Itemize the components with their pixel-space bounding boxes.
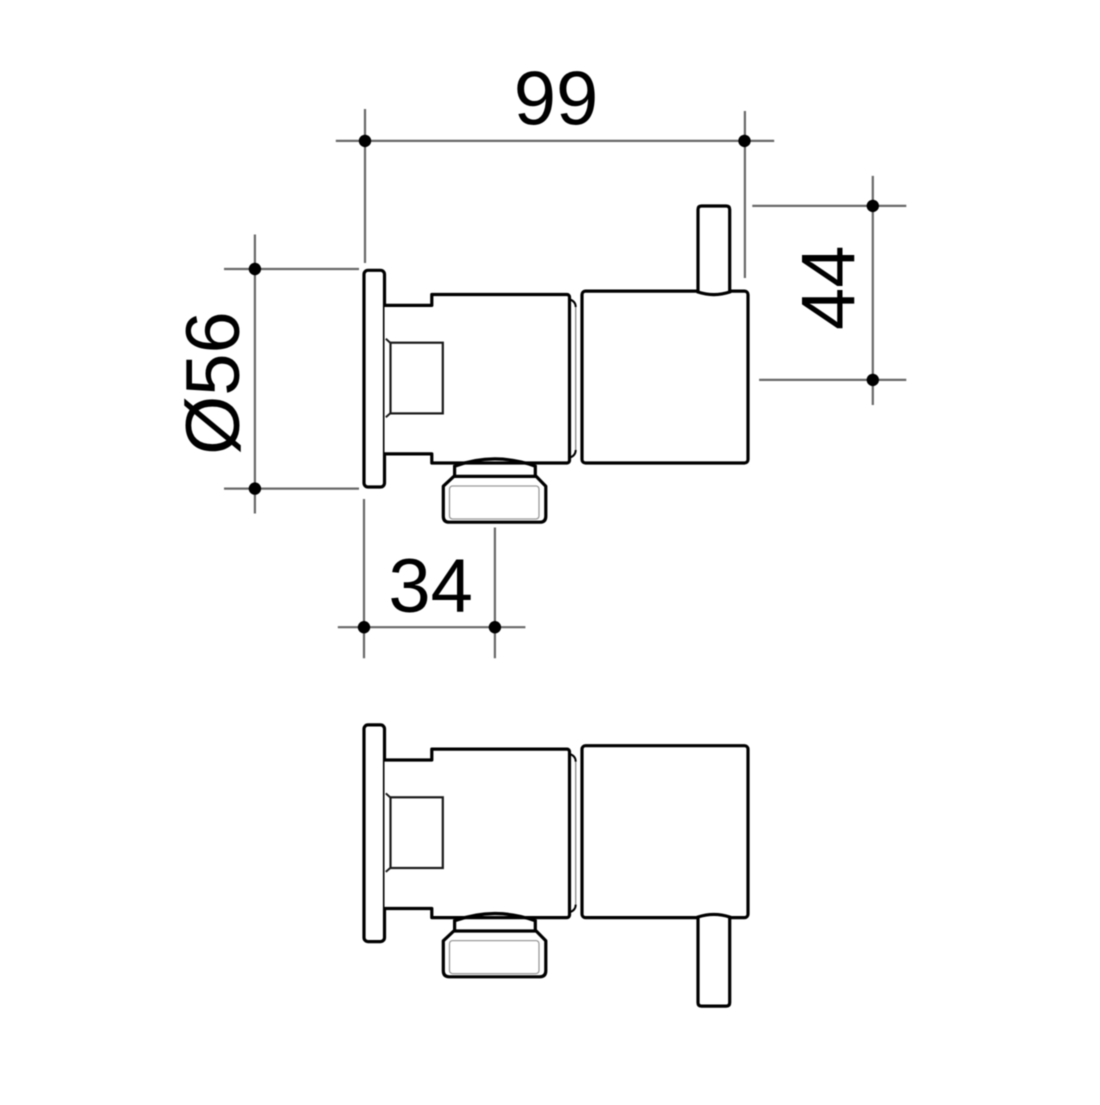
dimension O56: top dot: [249, 263, 261, 275]
top view: outlet collar arc: [455, 459, 536, 476]
top view: stem top fillet: [570, 300, 576, 308]
dimension 44: bottom dot: [867, 374, 879, 386]
bottom view: stem top fillet: [570, 754, 576, 762]
dimension 34: right extension line: [494, 528, 496, 659]
top view: wall flange: [364, 270, 385, 487]
bottom view: cartridge cylinder: [582, 746, 748, 918]
top view: spigot bottom chamfer: [386, 413, 391, 417]
dimension 34: dimension line: [338, 626, 526, 628]
top view: cartridge cylinder: [582, 291, 748, 463]
bottom view: valve body with neck: [385, 749, 570, 918]
svg-text:44: 44: [787, 245, 872, 330]
dimension O56: bottom extension line: [224, 488, 359, 490]
bottom view: stem neck line: [575, 761, 577, 906]
bottom view: handle pin: [698, 914, 730, 1006]
dimension 99: dimension line: [336, 140, 774, 142]
top view: outlet nut: [443, 476, 546, 522]
svg-text:Ø56: Ø56: [171, 311, 256, 455]
svg-text:34: 34: [388, 544, 473, 629]
dimension 99: left extension line: [364, 109, 366, 263]
dimension 99: right extension line: [744, 111, 746, 278]
top view: spigot top chamfer: [386, 339, 391, 343]
dimension 44: dimension line: [872, 176, 874, 405]
bottom view: inlet spigot: [391, 797, 443, 868]
top view: inlet spigot: [391, 343, 443, 414]
top view: nut inner facet: [450, 486, 540, 519]
dimension 99: left dot: [359, 135, 371, 147]
top view: stem neck line: [575, 306, 577, 451]
dimension O56: top extension line: [224, 268, 359, 270]
dimension O56: dimension line: [254, 235, 256, 514]
bottom view: outlet collar arc: [455, 914, 536, 932]
top view: valve body with neck: [385, 295, 570, 464]
bottom view: outlet nut: [443, 931, 546, 977]
dimension O56: bottom dot: [249, 482, 261, 494]
bottom view: nut inner facet: [450, 941, 540, 974]
dimension 99: right dot: [738, 135, 750, 147]
dimension 34: left extension line: [363, 499, 365, 658]
dimension 34: right dot: [489, 621, 501, 633]
svg-text:99: 99: [514, 57, 599, 142]
bottom view: wall flange: [364, 725, 385, 942]
bottom view: spigot top chamfer: [386, 793, 391, 797]
dimension 44: top dot: [867, 200, 879, 212]
top view: handle pin: [698, 206, 730, 295]
bottom view: spigot bottom chamfer: [386, 868, 391, 872]
dimension 44: top extension line: [752, 205, 906, 207]
dimension 44: bottom extension line: [759, 379, 906, 381]
bottom view: stem bottom fillet: [570, 905, 576, 913]
dimension 34: left dot: [358, 621, 370, 633]
top view: stem bottom fillet: [570, 450, 576, 458]
